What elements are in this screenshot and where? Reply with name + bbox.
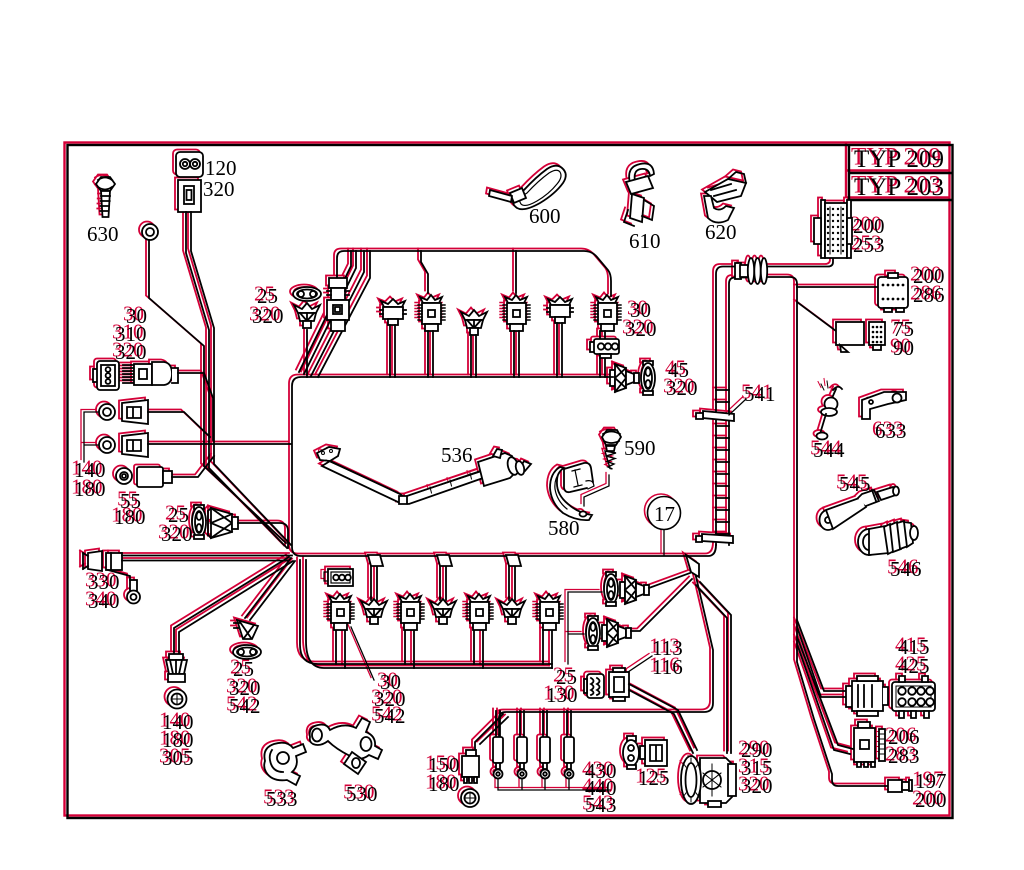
- svg-text:320: 320: [203, 177, 235, 201]
- svg-text:580: 580: [548, 516, 580, 540]
- svg-text:590: 590: [624, 436, 656, 460]
- svg-text:620: 620: [705, 220, 737, 244]
- black-only labels: [87, 156, 737, 540]
- red offset print layer: [65, 143, 950, 816]
- black print layer: [68, 145, 953, 818]
- svg-text:610: 610: [629, 229, 661, 253]
- svg-text:630: 630: [87, 222, 119, 246]
- svg-text:536: 536: [441, 443, 473, 467]
- svg-text:600: 600: [529, 204, 561, 228]
